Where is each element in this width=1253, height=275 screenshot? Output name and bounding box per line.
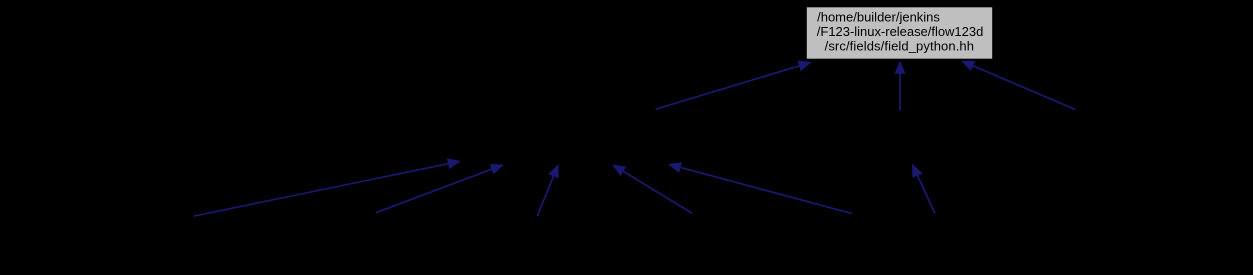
svg-text:/F123-linux-release/flow123d: /F123-linux-release/flow123d <box>817 24 984 39</box>
edge 2: bottom source file -> mid node <box>376 164 504 213</box>
edge 3: bottom source file -> mid node <box>537 164 558 216</box>
edge 5: bottom source file -> mid node <box>668 162 852 214</box>
node: /home/builder/jenkins/F123-linux-release/flow123d/src/fields/field_python.hh (current file, grey box) <box>806 7 992 59</box>
edge 1: bottom-left source file -> mid node <box>193 158 461 216</box>
edge 4: bottom source file -> mid node <box>612 165 692 214</box>
svg-text:/src/fields/field_python.hh: /src/fields/field_python.hh <box>825 38 974 53</box>
edge 6: mid node -> field_python.hh <box>656 61 812 110</box>
edge 9: mid node -> field_python.hh <box>961 61 1076 110</box>
edge 8: bottom source file -> mid node <box>912 164 935 214</box>
svg-text:/home/builder/jenkins: /home/builder/jenkins <box>817 9 940 24</box>
edge 7: mid node -> field_python.hh <box>894 61 905 111</box>
